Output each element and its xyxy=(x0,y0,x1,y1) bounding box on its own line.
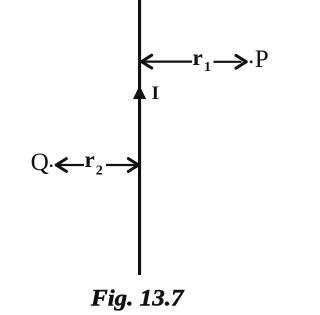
current direction arrowhead on wire xyxy=(133,86,146,99)
svg-text:r: r xyxy=(193,45,203,70)
svg-text:2: 2 xyxy=(96,163,103,178)
svg-text:r: r xyxy=(85,147,95,172)
r2 dimension arrow left segment xyxy=(58,164,85,166)
r1 right arrowhead xyxy=(236,55,246,68)
r2 dimension arrow right segment xyxy=(106,164,137,166)
wire (vertical current-carrying conductor) xyxy=(138,0,141,275)
svg-text:1: 1 xyxy=(204,60,211,75)
r2 left arrowhead (at Q) xyxy=(56,159,66,172)
svg-text:Fig. 13.7: Fig. 13.7 xyxy=(90,286,185,311)
r1 left arrowhead (at wire) xyxy=(142,55,152,68)
point Q dot xyxy=(50,164,53,167)
point P dot xyxy=(250,60,253,63)
svg-text:I: I xyxy=(152,83,159,104)
r2 right arrowhead (at wire) xyxy=(128,159,138,172)
svg-text:P: P xyxy=(255,46,269,73)
svg-text:Q: Q xyxy=(31,149,49,176)
r1 dimension arrow right segment xyxy=(214,61,242,63)
r1 dimension arrow left segment xyxy=(143,60,192,62)
